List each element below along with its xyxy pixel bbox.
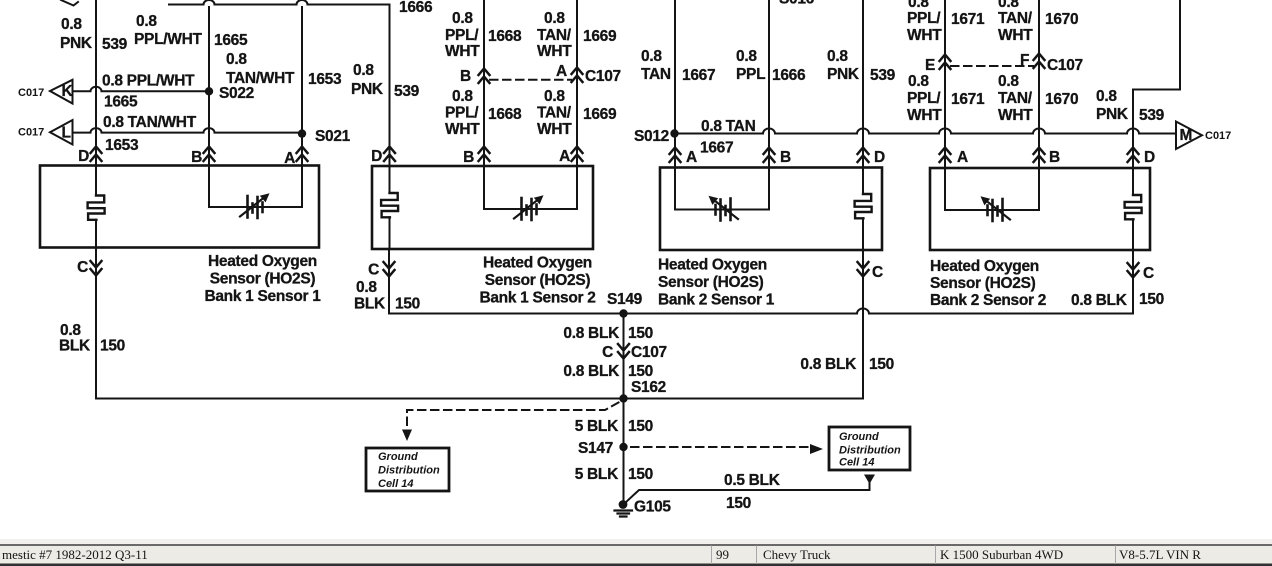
- wire TAN 1667 box3 A vertical: [674, 0, 676, 168]
- svg-text:PNK: PNK: [60, 35, 93, 52]
- svg-text:5 BLK: 5 BLK: [575, 418, 619, 435]
- terminal D box2: [384, 147, 395, 162]
- svg-text:150: 150: [726, 495, 751, 512]
- svg-text:0.8: 0.8: [1096, 88, 1117, 105]
- svg-text:Sensor (HO2S): Sensor (HO2S): [930, 275, 1036, 292]
- svg-text:1668: 1668: [488, 106, 522, 123]
- svg-text:WHT: WHT: [445, 43, 480, 60]
- svg-text:0.8: 0.8: [136, 13, 157, 30]
- terminal A box2: [572, 147, 583, 162]
- node S149: [619, 309, 627, 317]
- svg-text:D: D: [371, 148, 382, 165]
- svg-text:1653: 1653: [105, 137, 139, 154]
- svg-text:1670: 1670: [1045, 11, 1078, 28]
- svg-text:C017: C017: [1205, 130, 1231, 142]
- wire TAN/WHT 1669 box2 A vertical: [576, 0, 578, 166]
- svg-text:S162: S162: [631, 379, 666, 396]
- svg-text:1670: 1670: [1045, 91, 1078, 108]
- svg-text:1666: 1666: [399, 0, 433, 16]
- svg-text:PPL/: PPL/: [445, 105, 479, 122]
- node S147: [619, 443, 627, 451]
- svg-text:K 1500 Suburban 4WD: K 1500 Suburban 4WD: [940, 547, 1063, 562]
- heater element box3: [855, 194, 872, 218]
- svg-text:BLK: BLK: [354, 296, 386, 313]
- wire box1 C ground drop: [95, 248, 97, 399]
- svg-text:Sensor (HO2S): Sensor (HO2S): [210, 271, 316, 288]
- svg-text:Sensor (HO2S): Sensor (HO2S): [485, 272, 591, 289]
- ground distribution cell 14 box left: [366, 448, 449, 491]
- wire PPL/WHT 1671 box4 A vertical: [944, 0, 946, 168]
- svg-text:0.8: 0.8: [908, 73, 929, 90]
- wire BLK 150 horizontal box1C-S162-box3C: [96, 398, 863, 400]
- sensor box HO2S bank2 sensor1: [660, 168, 882, 251]
- connector C017 pin L triangle: [50, 120, 73, 145]
- svg-text:Cell 14: Cell 14: [839, 457, 874, 469]
- connector C107 pin B up: [479, 69, 490, 84]
- svg-text:A: A: [559, 148, 570, 165]
- wire PNK 539 box4 D feed: [1133, 0, 1180, 168]
- svg-text:539: 539: [870, 67, 896, 84]
- terminal B box2: [479, 147, 490, 162]
- wire dashed S162 to ground distribution cell: [407, 403, 619, 430]
- svg-text:PPL/: PPL/: [445, 27, 479, 44]
- wire top 1666 horizontal with hops: [169, 0, 390, 5]
- svg-text:150: 150: [628, 466, 653, 483]
- connector C107 pin E up: [940, 55, 951, 70]
- svg-text:150: 150: [628, 418, 653, 435]
- wire 0.5 BLK 150 from ground distribution to G105: [626, 483, 870, 503]
- terminal C box4 down: [1128, 263, 1139, 278]
- svg-text:Sensor (HO2S): Sensor (HO2S): [658, 274, 764, 291]
- arrowhead ground distribution 2 down: [864, 475, 875, 485]
- svg-text:PPL: PPL: [736, 66, 765, 83]
- svg-text:V8-5.7L VIN R: V8-5.7L VIN R: [1119, 547, 1201, 562]
- svg-text:A: A: [556, 63, 567, 80]
- terminal D box1: [91, 147, 102, 162]
- svg-text:1666: 1666: [772, 67, 806, 84]
- svg-text:150: 150: [869, 356, 894, 373]
- wire PPL 1666 box3 B vertical: [768, 0, 770, 168]
- wire PNK 539 drop to D box2: [389, 5, 391, 167]
- svg-text:150: 150: [100, 338, 125, 355]
- svg-text:C: C: [368, 262, 379, 279]
- svg-text:A: A: [284, 150, 295, 167]
- terminal A box3: [670, 148, 681, 163]
- node S162: [619, 394, 627, 402]
- terminal B box3: [764, 148, 775, 163]
- status bar bottom: [0, 539, 1272, 566]
- svg-text:S147: S147: [578, 440, 613, 457]
- svg-text:Distribution: Distribution: [378, 465, 440, 477]
- svg-text:99: 99: [716, 547, 729, 562]
- wire dashed C107 between E F: [951, 65, 1033, 67]
- connector C017 pin M triangle: [1176, 122, 1202, 150]
- svg-text:D: D: [1144, 149, 1155, 166]
- svg-text:WHT: WHT: [998, 107, 1033, 124]
- svg-text:5 BLK: 5 BLK: [575, 466, 619, 483]
- terminal C box3 down: [858, 262, 869, 277]
- wire fragment top left: [61, 0, 78, 6]
- sensor box HO2S bank2 sensor2: [930, 168, 1150, 250]
- svg-text:S022: S022: [219, 85, 254, 102]
- svg-text:0.8: 0.8: [736, 48, 757, 65]
- connector C017 pin K triangle: [50, 80, 73, 104]
- wire BLK 150 main ground vertical: [623, 314, 625, 504]
- svg-text:TAN/: TAN/: [998, 90, 1033, 107]
- terminal D box3: [858, 148, 869, 163]
- svg-text:B: B: [191, 149, 202, 166]
- svg-text:S149: S149: [607, 291, 643, 308]
- wire box1 sensing element B-A: [209, 166, 302, 208]
- svg-text:150: 150: [628, 325, 653, 342]
- svg-text:0.8: 0.8: [452, 88, 473, 105]
- svg-text:F: F: [1020, 52, 1029, 69]
- wire box3 D-C through box: [862, 168, 864, 251]
- svg-text:539: 539: [102, 36, 128, 53]
- svg-text:C107: C107: [631, 344, 667, 361]
- svg-text:150: 150: [395, 296, 420, 313]
- wire PNK 539 box1 D vertical: [95, 0, 97, 166]
- heater element box4: [1125, 195, 1142, 219]
- svg-text:Bank 2 Sensor 2: Bank 2 Sensor 2: [930, 292, 1046, 309]
- ground distribution cell 14 box right: [829, 427, 910, 470]
- svg-text:0.8: 0.8: [544, 10, 565, 27]
- svg-text:Chevy Truck: Chevy Truck: [763, 547, 831, 562]
- svg-text:mestic #7 1982-2012 Q3-11: mestic #7 1982-2012 Q3-11: [2, 547, 148, 562]
- svg-text:WHT: WHT: [445, 121, 480, 138]
- svg-text:0.8 BLK: 0.8 BLK: [563, 363, 620, 380]
- wire box4 sensing element A-B: [945, 168, 1039, 210]
- svg-text:0.8: 0.8: [544, 88, 565, 105]
- wire L to S021 with hops: [73, 128, 303, 133]
- heater element box2: [381, 193, 398, 217]
- svg-text:0.8 BLK: 0.8 BLK: [800, 356, 857, 373]
- wire dashed S147 to ground distribution cell: [631, 446, 810, 448]
- svg-text:M: M: [1180, 127, 1193, 144]
- svg-text:TAN: TAN: [641, 66, 671, 83]
- svg-text:1671: 1671: [951, 91, 985, 108]
- wire box2 D-C through box: [389, 166, 391, 249]
- svg-text:0.8: 0.8: [452, 10, 473, 27]
- svg-text:0.8 BLK: 0.8 BLK: [563, 325, 620, 342]
- wire box2 sensing element B-A: [484, 166, 577, 209]
- op boxes: [40, 166, 1150, 251]
- arrowhead S162 branch down: [402, 430, 412, 442]
- svg-text:S021: S021: [315, 128, 351, 145]
- svg-text:PPL/: PPL/: [907, 90, 941, 107]
- svg-text:S016: S016: [779, 0, 815, 8]
- svg-text:B: B: [780, 149, 791, 166]
- svg-text:Bank 1 Sensor 1: Bank 1 Sensor 1: [204, 288, 321, 305]
- svg-text:0.8: 0.8: [226, 51, 247, 68]
- svg-text:TAN/: TAN/: [537, 105, 572, 122]
- svg-text:1665: 1665: [214, 32, 248, 49]
- connector C107 pin A up: [572, 68, 583, 83]
- svg-text:C: C: [77, 259, 88, 276]
- svg-text:0.5 BLK: 0.5 BLK: [724, 472, 781, 489]
- svg-text:150: 150: [1139, 291, 1164, 308]
- svg-text:Bank 2 Sensor 1: Bank 2 Sensor 1: [658, 292, 775, 309]
- wire TAN/WHT 1653 box1 A vertical: [301, 7, 303, 166]
- svg-text:0.8: 0.8: [998, 73, 1019, 90]
- svg-text:WHT: WHT: [907, 107, 942, 124]
- wire BLK 150 bus S149 with hop: [389, 309, 1133, 314]
- svg-text:A: A: [957, 149, 968, 166]
- wire box3 sensing element A-B: [675, 168, 769, 210]
- svg-text:Distribution: Distribution: [839, 445, 901, 457]
- svg-text:WHT: WHT: [907, 27, 942, 44]
- node S012: [670, 129, 678, 137]
- svg-text:0.8 TAN/WHT: 0.8 TAN/WHT: [103, 114, 197, 131]
- svg-text:C017: C017: [18, 87, 44, 99]
- wire box2 C drop to S149 bus: [388, 249, 390, 314]
- svg-text:Ground: Ground: [839, 431, 879, 443]
- variable sensing element box3: [709, 196, 739, 221]
- svg-text:Bank 1 Sensor 2: Bank 1 Sensor 2: [479, 290, 595, 307]
- svg-text:WHT: WHT: [537, 43, 572, 60]
- svg-text:C017: C017: [18, 127, 44, 139]
- svg-text:B: B: [1049, 149, 1060, 166]
- svg-text:C: C: [602, 344, 613, 361]
- svg-text:WHT: WHT: [537, 121, 572, 138]
- wire TAN/WHT 1670 box4 B vertical: [1038, 0, 1040, 168]
- wire box3 C drop crossing bus: [862, 250, 864, 399]
- terminal C box1 down: [91, 261, 102, 276]
- arrowhead S147 branch right: [810, 444, 823, 454]
- wire PNK 539 box3 D vertical: [862, 0, 864, 168]
- wire TAN 1667 bus from S012 to M with hops: [675, 129, 1176, 134]
- svg-text:B: B: [463, 149, 474, 166]
- sensor box HO2S bank1 sensor1: [40, 166, 319, 248]
- svg-text:G105: G105: [634, 499, 671, 516]
- svg-text:C107: C107: [1047, 57, 1083, 74]
- svg-text:PNK: PNK: [1096, 106, 1129, 123]
- svg-text:1667: 1667: [682, 67, 715, 84]
- svg-text:Heated Oxygen: Heated Oxygen: [483, 255, 592, 272]
- svg-text:0.8: 0.8: [61, 16, 82, 33]
- svg-text:0.8 TAN: 0.8 TAN: [701, 118, 756, 135]
- terminal B box1: [204, 147, 215, 162]
- svg-text:Heated Oxygen: Heated Oxygen: [930, 258, 1039, 275]
- svg-text:PNK: PNK: [827, 66, 860, 83]
- variable sensing element box2: [514, 195, 544, 220]
- svg-text:150: 150: [628, 363, 653, 380]
- svg-text:0.8 BLK: 0.8 BLK: [1071, 292, 1128, 309]
- wire PPL/WHT 1668 box2 B vertical: [483, 0, 485, 166]
- svg-text:1665: 1665: [104, 94, 138, 111]
- svg-text:S012: S012: [634, 128, 669, 145]
- svg-text:E: E: [925, 57, 935, 74]
- svg-text:0.8: 0.8: [827, 48, 848, 65]
- svg-text:C107: C107: [585, 68, 621, 85]
- svg-text:1669: 1669: [583, 106, 617, 123]
- svg-text:539: 539: [1139, 107, 1165, 124]
- wire box4 D-C through box: [1132, 168, 1134, 250]
- svg-text:TAN/: TAN/: [998, 10, 1033, 27]
- svg-text:1668: 1668: [488, 28, 522, 45]
- svg-text:Cell 14: Cell 14: [378, 478, 413, 490]
- node S021: [298, 129, 306, 137]
- svg-text:Heated Oxygen: Heated Oxygen: [208, 253, 317, 270]
- wire PPL/WHT 1665 box1 B vertical: [208, 7, 210, 166]
- ground G105: [615, 500, 633, 516]
- svg-text:PNK: PNK: [351, 81, 384, 98]
- wire K to S022 with hop: [73, 87, 210, 92]
- connector C107 pin C down: [618, 344, 629, 359]
- svg-text:1653: 1653: [308, 71, 342, 88]
- connector C107 pin F up: [1034, 54, 1045, 69]
- svg-text:Heated Oxygen: Heated Oxygen: [658, 257, 767, 274]
- svg-text:0.8 PPL/WHT: 0.8 PPL/WHT: [102, 73, 195, 90]
- svg-text:WHT: WHT: [998, 27, 1033, 44]
- svg-text:PPL/WHT: PPL/WHT: [134, 31, 202, 48]
- terminal D box4: [1128, 148, 1139, 163]
- svg-text:A: A: [686, 149, 697, 166]
- terminal C box2 down: [384, 262, 395, 277]
- variable sensing element box1: [240, 193, 270, 218]
- svg-text:D: D: [78, 148, 89, 165]
- svg-text:K: K: [62, 83, 74, 100]
- svg-text:C: C: [1143, 265, 1154, 282]
- svg-text:1671: 1671: [951, 11, 985, 28]
- svg-text:Ground: Ground: [378, 451, 418, 463]
- terminal A box1: [297, 147, 308, 162]
- wire dashed C107 between B2 A2: [490, 79, 571, 81]
- svg-text:L: L: [62, 125, 71, 142]
- svg-text:0.8: 0.8: [353, 62, 374, 79]
- svg-text:D: D: [874, 149, 885, 166]
- svg-text:1669: 1669: [583, 28, 617, 45]
- svg-text:0.8: 0.8: [641, 48, 662, 65]
- terminal A box4: [940, 148, 951, 163]
- wire box1 D-C through box: [95, 166, 97, 248]
- svg-text:0.8: 0.8: [60, 322, 81, 339]
- svg-text:TAN/: TAN/: [537, 27, 572, 44]
- heater element box1: [88, 196, 105, 220]
- svg-text:B: B: [460, 68, 471, 85]
- svg-text:1667: 1667: [700, 140, 733, 157]
- svg-text:BLK: BLK: [59, 338, 91, 355]
- svg-text:0.8: 0.8: [356, 279, 377, 296]
- svg-text:PPL/: PPL/: [907, 10, 941, 27]
- sensor box HO2S bank1 sensor2: [372, 166, 593, 249]
- svg-text:539: 539: [394, 83, 420, 100]
- terminal B box4: [1034, 148, 1045, 163]
- node S022: [205, 87, 213, 95]
- svg-text:C: C: [872, 264, 883, 281]
- variable sensing element box4: [981, 196, 1011, 221]
- wire box4 C drop to bus: [1132, 250, 1134, 314]
